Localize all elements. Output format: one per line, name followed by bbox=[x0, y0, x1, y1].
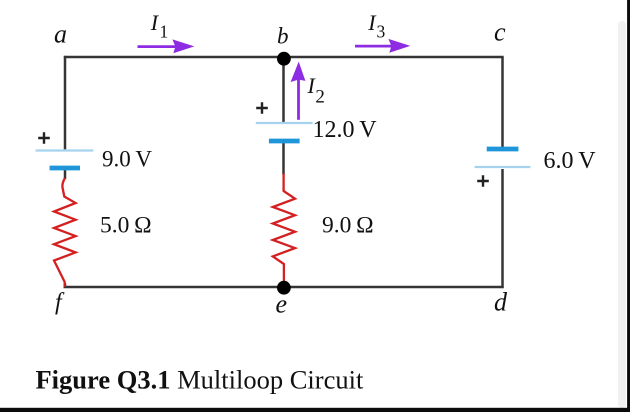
svg-text:b: b bbox=[277, 24, 289, 49]
battery B2 positive plate (thin light blue) bbox=[256, 122, 313, 124]
svg-text:Figure Q3.1 Multiloop Circuit: Figure Q3.1 Multiloop Circuit bbox=[36, 365, 364, 395]
svg-text:I3: I3 bbox=[367, 10, 385, 41]
battery B3 positive plate (thin light blue) bbox=[475, 166, 531, 168]
wire: stub below battery B1 bbox=[64, 169, 67, 179]
wire: right vertical c to battery B3 bbox=[501, 57, 504, 147]
battery B1 negative plate (thick blue) bbox=[50, 166, 80, 171]
current arrow I1 bbox=[138, 39, 195, 53]
wire: stub b down to battery B2 bbox=[282, 59, 285, 122]
wire: bottom e to d bbox=[284, 286, 504, 289]
wire: bottom f to e bbox=[64, 286, 284, 289]
svg-text:f: f bbox=[55, 290, 65, 316]
battery B1 positive plate (thin light blue) bbox=[36, 149, 94, 151]
battery B2 plus sign bbox=[256, 102, 268, 114]
scrollbar thumb bbox=[618, 21, 626, 408]
resistor R1 (5.0 ohm) red zigzag bbox=[54, 178, 76, 287]
wire: top b to c bbox=[284, 56, 504, 59]
svg-text:9.0 V: 9.0 V bbox=[102, 147, 152, 172]
wire: top a to b bbox=[64, 56, 284, 59]
svg-text:d: d bbox=[494, 288, 508, 317]
wire: left vertical a to battery B1 bbox=[64, 56, 67, 149]
battery B3 negative plate (thick blue) bbox=[487, 147, 519, 152]
svg-text:6.0 V: 6.0 V bbox=[544, 148, 597, 174]
svg-text:I2: I2 bbox=[307, 73, 325, 108]
current arrow I2 bbox=[291, 62, 306, 120]
svg-text:5.0 Ω: 5.0 Ω bbox=[100, 213, 152, 239]
battery B1 plus sign bbox=[38, 132, 50, 144]
frame right border bbox=[627, 0, 630, 412]
svg-text:e: e bbox=[276, 289, 288, 318]
battery B3 plus sign bbox=[477, 175, 489, 187]
svg-text:I1: I1 bbox=[150, 10, 169, 41]
resistor R2 (9.0 ohm) red zigzag bbox=[273, 174, 295, 288]
battery B2 negative plate (thick blue) bbox=[269, 139, 300, 144]
wire: stub below battery B2 bbox=[282, 143, 285, 175]
node b junction dot bbox=[277, 52, 291, 66]
node e junction dot bbox=[277, 281, 291, 295]
wire: right vertical battery B3 to d bbox=[501, 169, 504, 288]
svg-text:a: a bbox=[54, 20, 67, 49]
current arrow I3 bbox=[355, 39, 410, 53]
wire: corner stub at f bbox=[64, 283, 67, 287]
svg-text:c: c bbox=[494, 18, 506, 47]
svg-text:9.0 Ω: 9.0 Ω bbox=[322, 213, 374, 239]
svg-text:12.0 V: 12.0 V bbox=[313, 117, 378, 143]
frame bottom border bbox=[0, 408, 630, 412]
